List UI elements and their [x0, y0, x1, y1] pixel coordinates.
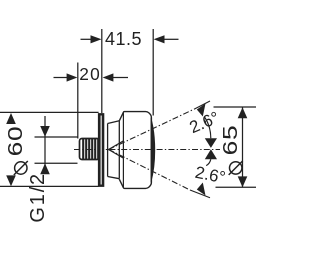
dia65 extension line top — [214, 106, 257, 108]
svg-text:60: 60 — [4, 126, 26, 157]
cone neck — [108, 121, 120, 179]
dia65 extension line bottom — [216, 186, 257, 188]
G1/2 arrowhead up — [40, 163, 50, 174]
dimension 20 extension line left — [77, 63, 79, 139]
angle arrowhead on lower ray — [197, 183, 206, 196]
G1/2 arrowhead down — [40, 126, 50, 137]
spray vertex arrow — [109, 141, 124, 159]
angle bowtie lower triangle — [205, 149, 217, 159]
dia65 arrowhead up — [238, 107, 248, 118]
thread body — [80, 139, 100, 160]
angle dimension arc connectors — [205, 117, 211, 166]
dimension 20 arrowhead left — [67, 73, 78, 81]
product outline — [80, 112, 156, 189]
head face bulge — [151, 118, 156, 183]
svg-text:41.5: 41.5 — [105, 29, 142, 49]
dimension 41.5 extension line left — [101, 29, 103, 113]
dia65 arrowhead down — [238, 176, 248, 187]
dia60 arrowhead down — [6, 175, 16, 186]
dimension 20 arrowhead right — [103, 73, 114, 81]
centerline — [74, 101, 220, 198]
svg-text:65: 65 — [219, 125, 241, 156]
spray ray upper — [109, 109, 194, 149]
G1/2 extension line top — [35, 136, 78, 138]
head seam line — [122, 112, 124, 187]
dimension 41.5 arrow right tail — [164, 38, 179, 40]
dimension 41.5 extension line right — [152, 29, 154, 116]
G1/2 dimension line — [44, 116, 46, 172]
dia60 extension line bottom — [0, 185, 99, 187]
spray ray lower — [109, 150, 190, 191]
diameter symbol for 60 — [14, 161, 28, 175]
dia60 arrowhead up — [6, 113, 16, 124]
dimension 41.5 arrowhead left — [91, 35, 102, 43]
thread hatch lines — [83, 139, 98, 160]
angle bowtie upper triangle — [205, 138, 217, 148]
dimension 20 arrow left tail — [54, 77, 68, 79]
dia65 dimension line — [242, 107, 244, 187]
arrows (filled) — [6, 35, 247, 195]
dimension 41.5 arrow left tail — [81, 38, 92, 40]
head outline — [119, 112, 151, 189]
diameter symbol for 65 — [229, 161, 243, 175]
svg-text:20: 20 — [79, 64, 101, 84]
G1/2 extension line bottom — [35, 162, 78, 164]
angle arrowhead on upper ray — [197, 104, 206, 117]
dimension 41.5 arrowhead right — [154, 35, 165, 43]
dia60 extension line top — [0, 111, 99, 113]
svg-text:G1/2: G1/2 — [27, 172, 49, 223]
dimension 20 arrow right tail — [113, 77, 128, 79]
wall flange — [98, 113, 104, 187]
